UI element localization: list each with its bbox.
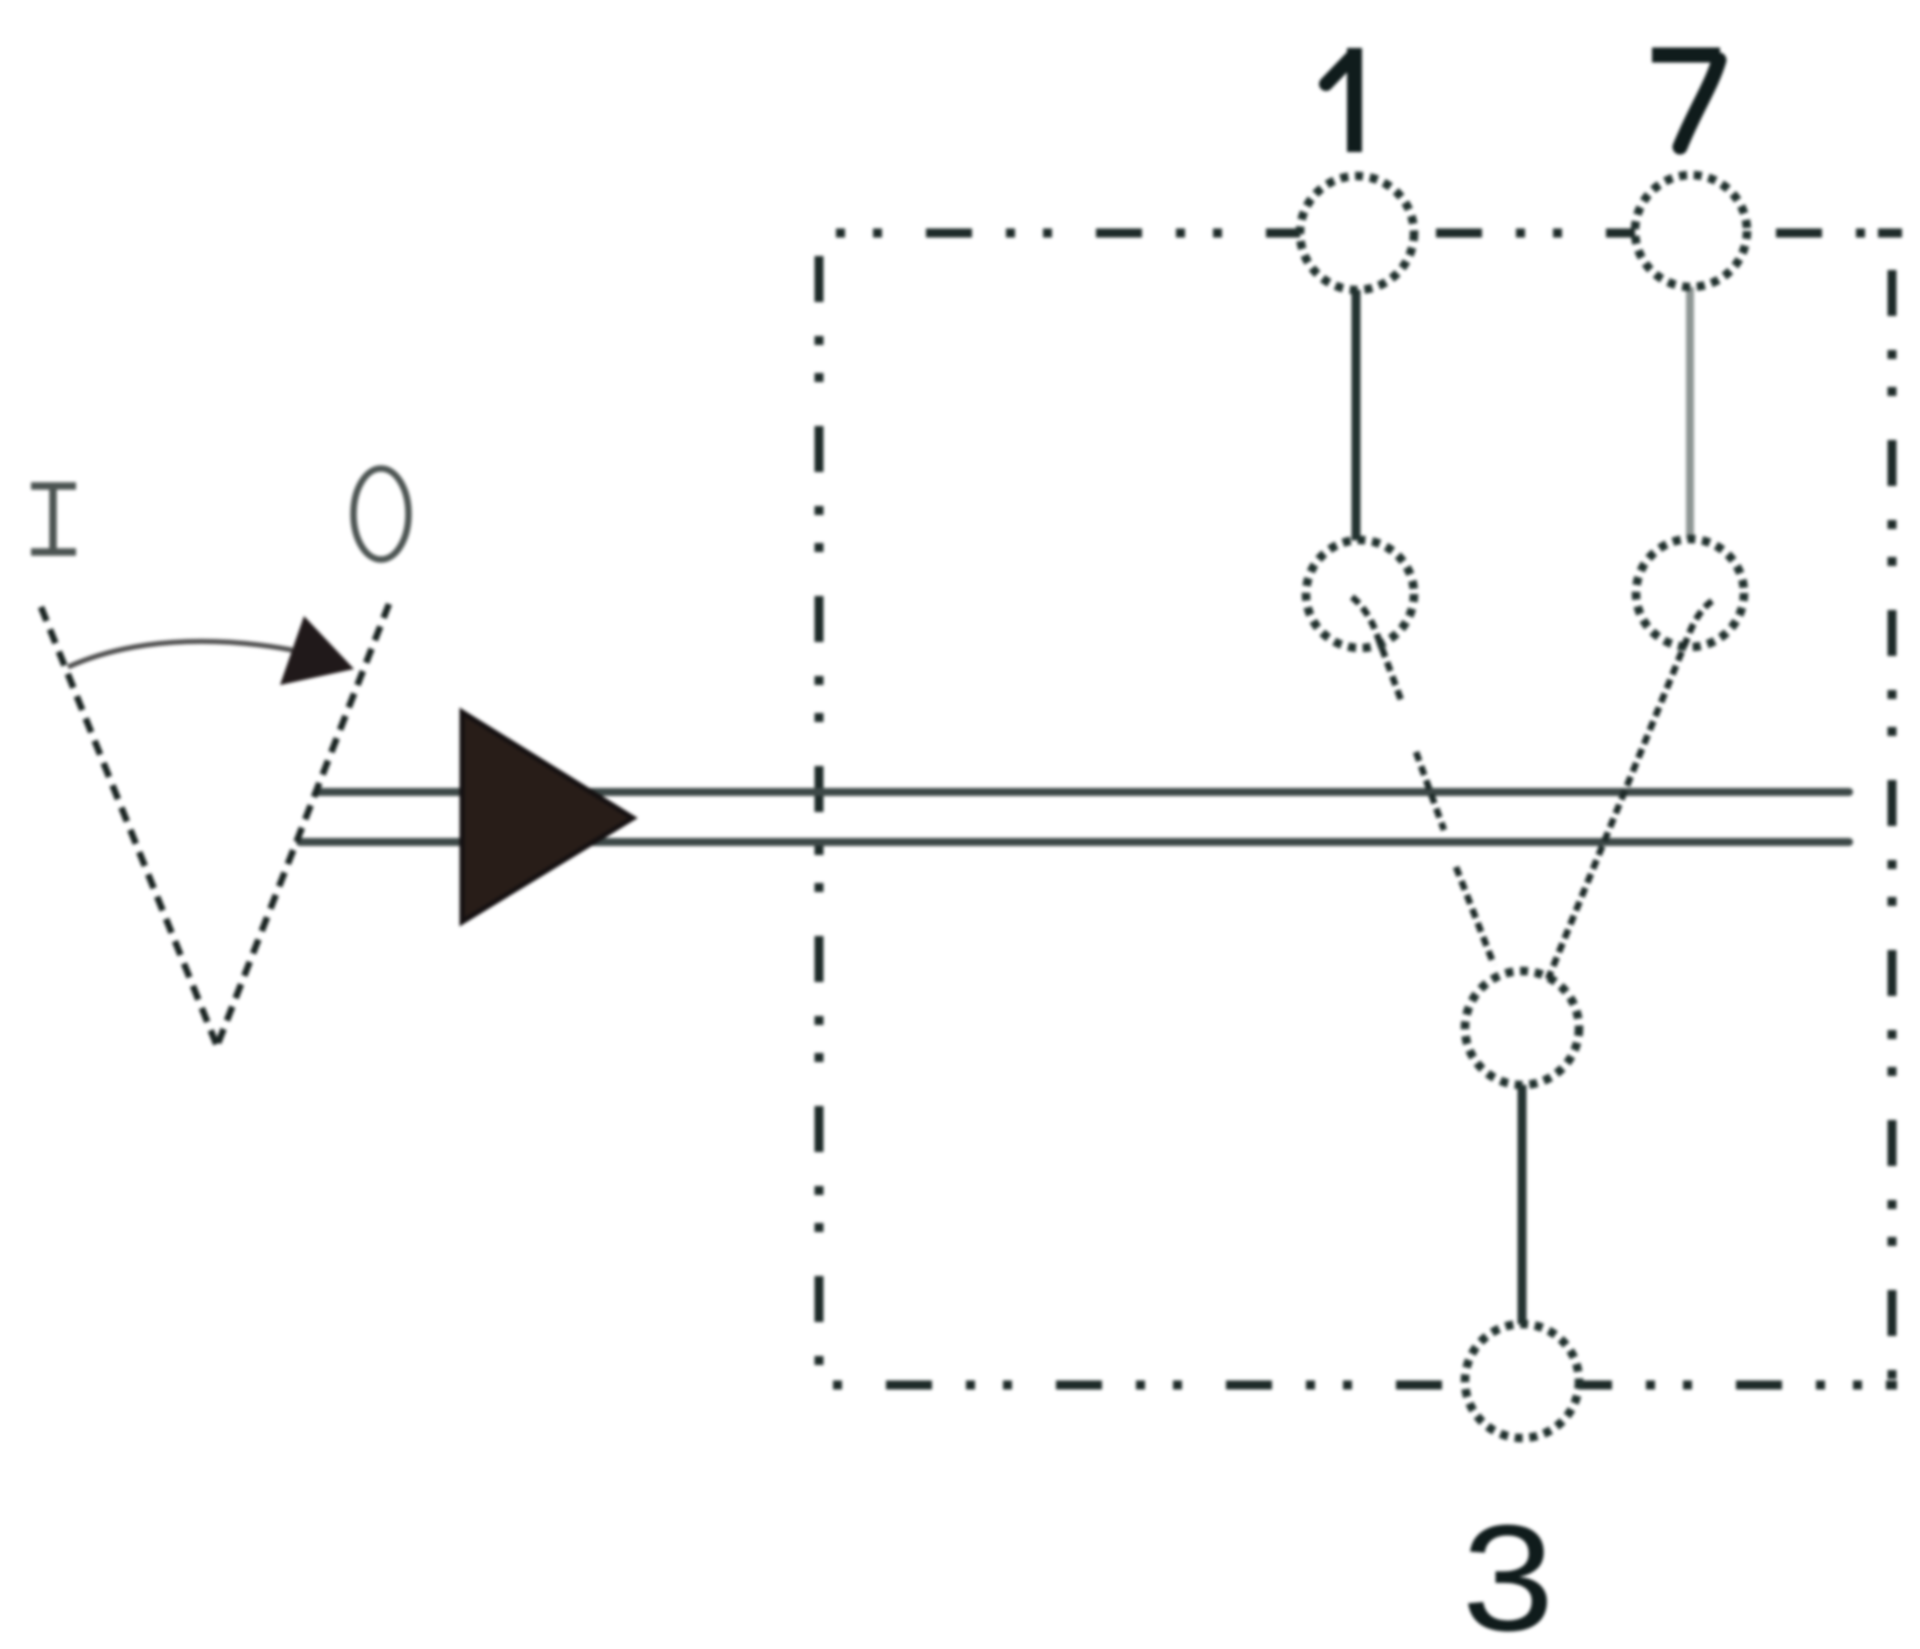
svg-text:3: 3 bbox=[1462, 1493, 1554, 1649]
